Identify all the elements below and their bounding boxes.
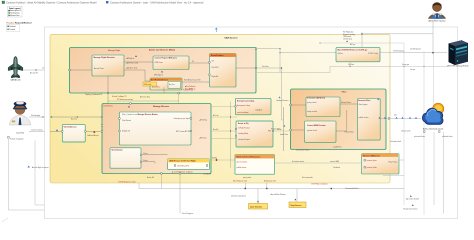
wire aircraft to system — [23, 69, 49, 71]
svg-text:Data Legend: Data Legend — [9, 7, 21, 10]
svg-text:◆ On/Off Platform In Airport: ◆ On/Off Platform In Airport — [172, 171, 193, 174]
svg-text:Mission UAMwntrol: Mission UAMwntrol — [363, 154, 380, 157]
label wire bottom-right 2 — [412, 204, 414, 206]
svg-text:Aircraft flight in airport: Aircraft flight in airport — [32, 166, 49, 169]
small yellow box in container — [143, 82, 157, 86]
svg-text:Nav Des: Nav Des — [71, 118, 77, 120]
svg-text:Control Fspeed Effectors: Control Fspeed Effectors — [155, 57, 178, 60]
svg-text:Fleet: Fleet — [342, 90, 347, 93]
svg-text:Airline Fleet Operator: Airline Fleet Operator — [428, 20, 445, 23]
wire weather row — [380, 118, 421, 120]
svg-text:Loading Mode: Loading Mode — [238, 133, 248, 135]
block UAM Aircraft System (big pale yellow) — [50, 34, 390, 183]
fleet inner labels/wires — [284, 104, 358, 151]
wire avatar down — [432, 34, 434, 53]
wire left loop A — [8, 139, 382, 210]
svg-text:Command Vehicle: Command Vehicle — [345, 188, 359, 190]
block Fleet (big) — [291, 89, 387, 150]
svg-text:Cmd Response: Cmd Response — [410, 49, 421, 51]
wire container to File Flight — [257, 48, 280, 50]
icon avatar operator — [428, 2, 446, 22]
svg-text:Drive Progress: Drive Progress — [182, 212, 193, 215]
svg-text:(assess) climb: (assess) climb — [367, 167, 377, 169]
svg-text:unknwn clmb: unknwn clmb — [401, 131, 410, 133]
wire left loop B — [35, 132, 439, 205]
faint diagonal bottom-left — [2, 218, 8, 222]
wire left loop C — [62, 139, 110, 181]
wire File Flight to server — [380, 52, 447, 54]
svg-text:UAM Aircraft: UAM Aircraft — [10, 78, 21, 81]
svg-text:Plan Mission: Plan Mission — [122, 120, 131, 122]
svg-text:SensePosition: SensePosition — [211, 54, 223, 57]
svg-text:Emergency Landing: Emergency Landing — [237, 100, 254, 102]
svg-text:pickup sched: pickup sched — [307, 102, 316, 104]
svg-text:Generate Rout: Generate Rout — [358, 99, 371, 102]
svg-text:Berth and On off Resources: Berth and On off Resources — [237, 156, 261, 159]
svg-text:Aircraft I/O: Aircraft I/O — [30, 72, 39, 75]
ports on container — [69, 67, 257, 94]
svg-text:Manage Flight Direction: Manage Flight Direction — [94, 56, 116, 59]
icon aircraft — [8, 57, 23, 82]
block Emergency Landing — [236, 98, 272, 115]
block UAM Mission OnOff — [168, 159, 210, 170]
svg-text:Schedule UAM (fleet): Schedule UAM (fleet) — [307, 97, 325, 100]
block Plan Create inner — [120, 112, 192, 145]
svg-text:Aviate and Observe (Main): Aviate and Observe (Main) — [149, 49, 175, 52]
svg-text:GS: GS — [212, 61, 214, 63]
svg-text:Manage Flight: Manage Flight — [108, 49, 120, 52]
svg-text:VehicleDirector: VehicleDirector — [64, 125, 77, 128]
svg-text:Manage Mission: Manage Mission — [153, 106, 170, 108]
wires bottom area — [139, 174, 404, 214]
svg-text:GPS relay: GPS relay — [144, 84, 151, 86]
svg-text:AeroPositionSensors: AeroPositionSensors — [151, 78, 168, 81]
block File Flight Plan — [336, 48, 380, 62]
svg-text:Identification: Identification — [112, 149, 123, 152]
wire File Flight up to operator — [362, 20, 433, 48]
svg-text:On/Off Brd rq: On/Off Brd rq — [103, 106, 113, 108]
svg-text:Plan_Create for on Manage Miss: Plan_Create for on Manage Mission Broker — [122, 113, 158, 116]
svg-text:GPS Crew: GPS Crew — [155, 61, 164, 64]
block Generate Route — [358, 99, 381, 141]
legend Function Required/Realized — [7, 21, 33, 31]
wires around Vehicle Director — [50, 117, 101, 132]
wire across top to server — [257, 66, 448, 72]
svg-text:GPS Edge fd: GPS Edge fd — [154, 74, 163, 76]
svg-text:On/Off Board Pln: On/Off Board Pln — [177, 166, 189, 168]
svg-text:Contoso Architecture System -: Contoso Architecture System - main - UAM… — [110, 1, 204, 4]
svg-text:On/Off Request to Oper: On/Off Request to Oper — [118, 180, 136, 183]
wires inside container — [70, 62, 210, 93]
svg-text:Aviate to Fly: Aviate to Fly — [238, 122, 249, 125]
svg-text:UAM System: UAM System — [224, 36, 237, 39]
container Urban Air Mobility boundary — [45, 27, 458, 219]
svg-text:Contoso Architect / Urban Air: Contoso Architect / Urban Air Mobility S… — [6, 1, 97, 4]
label wire bottom-right 1 — [410, 195, 412, 197]
svg-text:Msny Prgrss: Msny Prgrss — [389, 162, 398, 164]
ports pilot — [8, 137, 10, 139]
window title bar — [2, 1, 204, 4]
svg-text:Delivery Operations: Delivery Operations — [231, 195, 246, 198]
block Vehicle Director — [62, 125, 85, 142]
svg-text:ATM UTM Gateway Website: ATM UTM Gateway Website — [447, 64, 468, 67]
svg-text:Pilot display: Pilot display — [31, 114, 40, 117]
svg-text:Mng Missions: Mng Missions — [291, 205, 302, 207]
block Schedule UAM fleet — [306, 97, 340, 117]
svg-text:OnTime dep: OnTime dep — [343, 39, 352, 41]
svg-text:Emergency Lndng: Emergency Lndng — [237, 105, 250, 107]
wire pilot to system — [29, 117, 50, 132]
svg-text:Jane Pilot: Jane Pilot — [16, 132, 24, 135]
block Aviate to Fly — [236, 121, 273, 147]
svg-text:Realized: Realized — [9, 26, 15, 28]
icon cloud weather — [414, 103, 453, 138]
svg-text:OpPlan: OpPlan — [338, 53, 343, 55]
svg-text:Ps: Ps — [192, 61, 194, 63]
block Control Flight Pos Effectors — [153, 56, 189, 70]
wire bottom long — [106, 213, 455, 215]
svg-text:Landing Clearnce: Landing Clearnce — [276, 100, 289, 102]
svg-text:Control UAM Position: Control UAM Position — [307, 124, 326, 127]
wire container to right — [236, 67, 255, 69]
svg-text:Vehicle navigation: Vehicle navigation — [10, 138, 24, 141]
svg-text:On/wards climb: On/wards climb — [390, 141, 401, 143]
svg-text:Must Fall/File Review or On/Of: Must Fall/File Review or On/Off opr — [338, 48, 368, 51]
svg-text:Sched_On/Args TD: Sched_On/Args TD — [112, 95, 127, 98]
block Berth Mission — [235, 155, 275, 175]
svg-text:Display_Dashboard UI: Display_Dashboard UI — [85, 93, 102, 96]
container Aviate and Observe (Main) — [70, 48, 257, 94]
box Manage Missions — [289, 202, 306, 208]
block Manage Flight Direction — [92, 55, 124, 76]
blue glyph top — [215, 28, 217, 30]
block Aircraft Position Sensors — [210, 54, 237, 88]
svg-text:OffPlanned: OffPlanned — [343, 36, 351, 38]
svg-text:Oprtr Schedule: Oprtr Schedule — [250, 205, 262, 208]
block Identification — [110, 148, 141, 168]
block Manage Mission (Broker) — [102, 104, 211, 174]
legend Data Legend — [8, 7, 23, 18]
icon server — [447, 40, 468, 67]
block Observe Position Sensors — [150, 78, 182, 90]
icon pilot — [10, 101, 31, 134]
svg-text:Nav Fd: Nav Fd — [213, 129, 218, 131]
block Mission UAM Control — [362, 154, 400, 175]
blue glyph lower left — [28, 166, 30, 168]
box Operator Schedule — [249, 204, 268, 210]
svg-text:Function Required/Realized: Function Required/Realized — [7, 21, 33, 24]
icon blue glyph — [56, 129, 58, 131]
wires right bottom — [211, 106, 444, 213]
wire long vertical right — [403, 43, 405, 205]
svg-text:Comm steering: Comm steering — [31, 128, 43, 131]
svg-text:Aircraft Crew: Aircraft Crew — [94, 67, 105, 70]
svg-text:UAM Mission On/Off Cntl Flight: UAM Mission On/Off Cntl Flight — [169, 160, 196, 163]
svg-text:Air/Str-cmds-Ready Clouds: Air/Str-cmds-Ready Clouds — [423, 128, 444, 131]
block Control UAM position — [305, 121, 337, 142]
svg-text:Aircraft Msn Planner: Aircraft Msn Planner — [271, 193, 287, 196]
svg-text:UT Beam processing: UT Beam processing — [117, 98, 133, 101]
